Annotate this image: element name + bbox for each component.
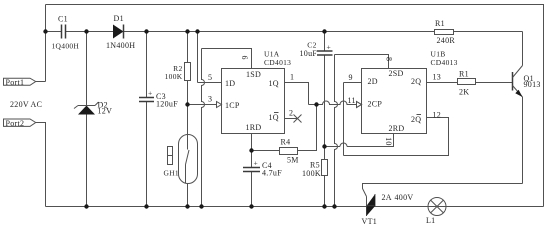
- svg-text:240R: 240R: [437, 36, 456, 45]
- svg-text:+: +: [148, 89, 153, 98]
- svg-text:10: 10: [384, 137, 393, 146]
- svg-text:1Q400H: 1Q400H: [52, 42, 80, 51]
- svg-text:Port2: Port2: [6, 119, 25, 128]
- svg-text:2SD: 2SD: [389, 69, 404, 78]
- svg-text:R1: R1: [459, 70, 469, 79]
- svg-text:1Q: 1Q: [269, 79, 279, 88]
- svg-text:C1: C1: [58, 15, 68, 24]
- svg-text:120uF: 120uF: [156, 100, 178, 109]
- svg-text:100K: 100K: [302, 169, 321, 178]
- svg-text:2RD: 2RD: [389, 124, 405, 133]
- svg-text:9013: 9013: [524, 80, 541, 89]
- svg-text:1N400H: 1N400H: [106, 41, 135, 50]
- svg-text:4.7uF: 4.7uF: [262, 169, 282, 178]
- svg-text:+: +: [254, 159, 259, 168]
- svg-text:2Q: 2Q: [411, 115, 421, 124]
- svg-text:+: +: [327, 43, 332, 52]
- svg-text:2Q: 2Q: [411, 77, 421, 86]
- svg-text:1: 1: [290, 73, 294, 82]
- svg-text:10uF: 10uF: [300, 49, 318, 58]
- svg-text:8: 8: [384, 57, 393, 61]
- svg-text:5M: 5M: [287, 155, 299, 164]
- svg-text:2A: 2A: [382, 193, 392, 202]
- svg-text:Port1: Port1: [6, 78, 25, 87]
- svg-text:1Q: 1Q: [269, 113, 279, 122]
- svg-text:5: 5: [208, 73, 212, 82]
- svg-text:11: 11: [348, 96, 356, 105]
- svg-text:100K: 100K: [165, 72, 183, 81]
- svg-text:U1A: U1A: [264, 49, 280, 58]
- svg-text:VT1: VT1: [362, 217, 378, 226]
- svg-text:R4: R4: [281, 138, 291, 147]
- svg-text:GH1: GH1: [164, 169, 179, 178]
- svg-text:3: 3: [208, 94, 212, 103]
- svg-text:12V: 12V: [98, 107, 113, 116]
- svg-text:D1: D1: [114, 14, 124, 23]
- svg-text:R1: R1: [435, 19, 445, 28]
- svg-text:6: 6: [240, 56, 249, 60]
- svg-text:CD4013: CD4013: [264, 58, 291, 67]
- svg-text:13: 13: [433, 72, 442, 81]
- svg-text:220V: 220V: [10, 100, 29, 109]
- svg-text:9: 9: [349, 73, 353, 82]
- svg-text:2: 2: [289, 108, 293, 117]
- svg-text:1SD: 1SD: [246, 70, 261, 79]
- svg-text:1RD: 1RD: [246, 123, 262, 132]
- svg-text:2D: 2D: [368, 77, 378, 86]
- svg-text:2CP: 2CP: [368, 99, 383, 108]
- svg-text:1D: 1D: [225, 79, 235, 88]
- svg-text:1CP: 1CP: [225, 101, 240, 110]
- svg-text:400V: 400V: [395, 193, 414, 202]
- svg-text:AC: AC: [31, 100, 43, 109]
- svg-text:CD4013: CD4013: [431, 58, 458, 67]
- svg-text:L1: L1: [426, 216, 436, 225]
- svg-text:2K: 2K: [459, 88, 469, 97]
- svg-text:12: 12: [433, 111, 442, 120]
